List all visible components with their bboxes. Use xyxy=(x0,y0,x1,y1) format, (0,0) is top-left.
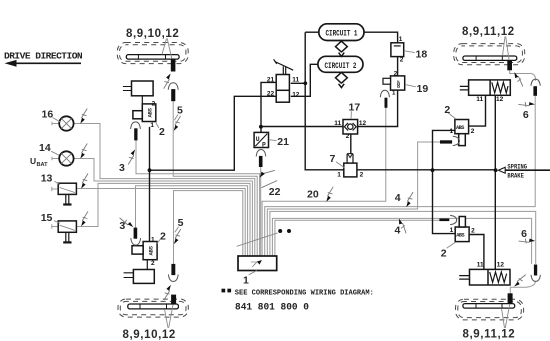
svg-text:2: 2 xyxy=(346,133,350,140)
svg-text:ABS: ABS xyxy=(456,233,464,239)
svg-text:ABS: ABS xyxy=(456,125,464,131)
svg-text:1: 1 xyxy=(450,128,454,135)
svg-text:2: 2 xyxy=(360,172,364,179)
svg-text:4: 4 xyxy=(395,192,401,204)
svg-text:2: 2 xyxy=(152,100,156,107)
svg-text:12: 12 xyxy=(292,92,300,99)
svg-text:2: 2 xyxy=(159,126,165,138)
svg-text:2: 2 xyxy=(394,70,398,77)
svg-text:1: 1 xyxy=(392,90,396,97)
svg-text:12: 12 xyxy=(496,96,504,103)
svg-text:1: 1 xyxy=(151,236,155,243)
svg-text:15: 15 xyxy=(41,212,53,224)
svg-text:CIRCUIT 2: CIRCUIT 2 xyxy=(325,63,357,71)
svg-text:1: 1 xyxy=(243,274,249,286)
svg-text:13: 13 xyxy=(41,173,53,185)
svg-text:22: 22 xyxy=(269,186,281,198)
svg-text:19: 19 xyxy=(417,83,429,95)
svg-text:5: 5 xyxy=(177,104,183,116)
svg-text:11: 11 xyxy=(477,262,484,269)
svg-text:841 801 800 0: 841 801 800 0 xyxy=(235,302,309,313)
svg-text:2: 2 xyxy=(444,104,450,116)
svg-text:21: 21 xyxy=(277,136,289,148)
svg-text:3: 3 xyxy=(119,220,125,232)
svg-text:2: 2 xyxy=(400,57,404,64)
svg-text:6: 6 xyxy=(523,109,529,121)
svg-text:11: 11 xyxy=(292,76,299,83)
svg-text:20: 20 xyxy=(307,188,319,200)
svg-text:DIF: DIF xyxy=(396,80,402,88)
svg-text:3: 3 xyxy=(119,162,125,174)
svg-text:21: 21 xyxy=(267,76,275,83)
svg-text:ABS: ABS xyxy=(147,107,154,117)
svg-text:SEE CORRESPONDING WIRING DIAGR: SEE CORRESPONDING WIRING DIAGRAM: xyxy=(235,290,374,298)
svg-text:14: 14 xyxy=(39,142,51,154)
svg-text:U: U xyxy=(256,136,260,143)
svg-text:1: 1 xyxy=(450,227,454,234)
svg-text:2: 2 xyxy=(160,231,166,243)
svg-text:2: 2 xyxy=(471,227,475,234)
svg-text:BAT: BAT xyxy=(37,162,49,168)
svg-text:8,9,10,12: 8,9,10,12 xyxy=(126,28,179,40)
svg-text:17: 17 xyxy=(349,101,361,113)
svg-text:BRAKE: BRAKE xyxy=(507,173,524,180)
svg-text:18: 18 xyxy=(416,49,428,61)
svg-text:1: 1 xyxy=(337,172,341,179)
svg-text:5: 5 xyxy=(178,217,184,229)
svg-text:16: 16 xyxy=(42,108,54,120)
svg-text:7: 7 xyxy=(330,153,336,165)
svg-text:1: 1 xyxy=(150,122,154,129)
svg-text:2: 2 xyxy=(441,247,447,259)
svg-text:12: 12 xyxy=(497,262,505,269)
svg-text:2: 2 xyxy=(151,260,155,267)
svg-text:8,9,11,12: 8,9,11,12 xyxy=(462,26,515,38)
svg-text:1: 1 xyxy=(399,36,403,43)
svg-text:12: 12 xyxy=(359,120,367,127)
svg-text:22: 22 xyxy=(267,91,275,98)
svg-text:SPRING: SPRING xyxy=(507,164,527,171)
svg-text:CIRCUIT 1: CIRCUIT 1 xyxy=(326,31,358,39)
svg-text:8,9,11,12: 8,9,11,12 xyxy=(463,329,516,341)
svg-text:U: U xyxy=(30,156,36,166)
svg-text:DRIVE DIRECTION: DRIVE DIRECTION xyxy=(4,51,83,62)
svg-text:4: 4 xyxy=(395,225,401,237)
svg-text:ABS: ABS xyxy=(147,245,154,255)
svg-text:11: 11 xyxy=(334,120,341,127)
svg-text:8,9,10,12: 8,9,10,12 xyxy=(123,329,176,341)
svg-text:2: 2 xyxy=(471,128,475,135)
svg-text:P: P xyxy=(262,142,266,149)
svg-text:6: 6 xyxy=(521,228,527,240)
svg-text:11: 11 xyxy=(476,96,483,103)
